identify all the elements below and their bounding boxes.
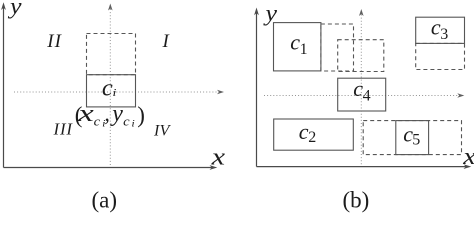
svg-text:y: y [110, 101, 123, 127]
svg-text:c: c [299, 119, 309, 144]
x-axis arrowhead (a) [210, 165, 218, 170]
vertical dotted arrowhead (a) [108, 4, 113, 11]
label c_4 [353, 76, 370, 105]
svg-text:): ) [137, 103, 145, 128]
label c_3 [431, 15, 448, 44]
svg-text:c: c [94, 114, 101, 129]
vertical dotted center line (b) [360, 15, 362, 167]
label c_1 [290, 30, 307, 58]
y-axis arrowhead (b) [254, 8, 259, 16]
svg-text:y: y [8, 0, 23, 19]
label c_5 [403, 121, 420, 148]
x-axis (b) [257, 166, 467, 168]
x-axis arrowhead (b) [464, 164, 472, 169]
x-axis (a) [4, 167, 213, 169]
svg-text:x: x [210, 145, 225, 171]
rectangle c4 (b) [338, 78, 386, 111]
svg-text:x: x [77, 101, 94, 127]
svg-text:4: 4 [363, 88, 371, 105]
dashed rectangle above c4 (b) [338, 40, 384, 72]
horizontal dotted center line (b) [264, 95, 459, 97]
label (x_ci, y_ci) [75, 101, 145, 129]
svg-text:c: c [102, 74, 113, 101]
dashed rectangle above c_i (a) [87, 34, 136, 75]
rectangle c3 (b) [416, 17, 465, 43]
svg-text:IV: IV [153, 123, 172, 140]
dashed container around c5 (b) [363, 121, 461, 155]
y-axis (a) [3, 7, 5, 168]
rectangle c1 (b) [274, 23, 321, 71]
svg-text:y: y [263, 1, 278, 26]
svg-text:i: i [113, 88, 117, 99]
vertical dotted arrowhead (b) [359, 9, 364, 16]
y-axis (b) [256, 13, 258, 167]
svg-text:c: c [123, 114, 130, 129]
svg-text:1: 1 [300, 41, 308, 58]
svg-text:3: 3 [440, 26, 448, 43]
solid rectangle c_i (a) [87, 75, 136, 107]
svg-text:(a): (a) [92, 188, 118, 213]
svg-text:x: x [462, 144, 474, 170]
dashed rectangle below c3 (b) [416, 43, 465, 69]
svg-text:(b): (b) [343, 188, 370, 213]
label c_i [102, 74, 117, 101]
horizontal dotted center line (a) [14, 91, 219, 93]
label c_2 [299, 119, 317, 146]
y-axis arrowhead (a) [1, 2, 6, 10]
vertical dotted center line (a) [109, 9, 111, 167]
svg-text:5: 5 [412, 131, 420, 148]
svg-text:III: III [53, 119, 74, 138]
svg-text:,: , [104, 101, 110, 126]
dashed rectangle right of c1 (b) [321, 24, 354, 71]
rectangle c5 (b) [396, 121, 429, 155]
horizontal dotted arrowhead (b) [457, 93, 464, 98]
rectangle c2 (b) [274, 119, 354, 150]
horizontal dotted arrowhead (a) [217, 90, 224, 95]
svg-text:2: 2 [308, 129, 316, 146]
svg-text:II: II [46, 31, 62, 52]
